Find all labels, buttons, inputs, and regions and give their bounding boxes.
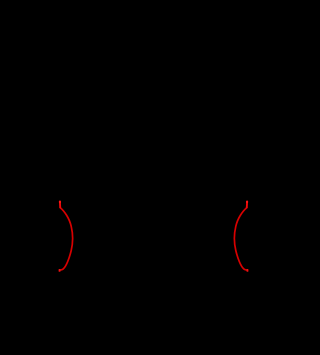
left red curve ")" (59, 201, 73, 272)
right red curve "(" (mirror of left) (234, 201, 248, 272)
